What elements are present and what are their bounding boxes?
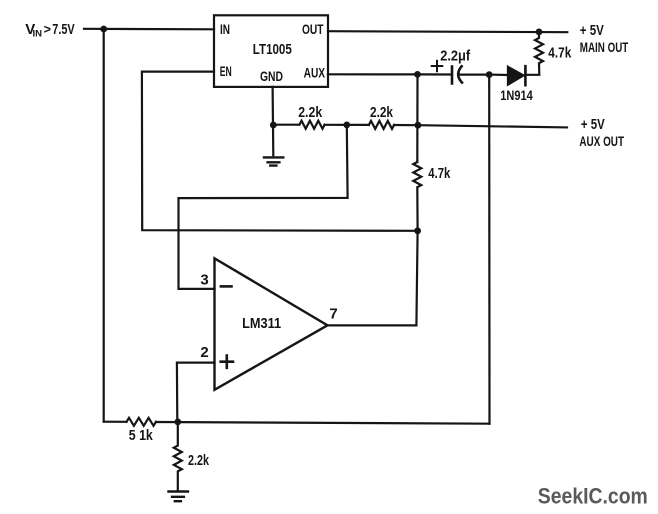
junction GND node xyxy=(270,122,277,129)
svg-text:MAIN OUT: MAIN OUT xyxy=(580,39,629,55)
junction OUT node xyxy=(536,29,543,36)
svg-text:GND: GND xyxy=(260,69,283,84)
junction feedback node xyxy=(414,227,421,234)
wire divider to pin3 xyxy=(179,125,348,289)
wire pin2 xyxy=(177,363,215,422)
resistor R1 4.7k xyxy=(526,32,543,75)
wire AUX node to R4 xyxy=(416,74,418,162)
svg-text:+ 5V: + 5V xyxy=(580,22,604,39)
svg-text:4.7k: 4.7k xyxy=(548,45,572,62)
wire left rail xyxy=(103,29,105,422)
svg-text:2.2k: 2.2k xyxy=(298,105,323,121)
svg-text:SeekIC.com: SeekIC.com xyxy=(538,484,648,509)
wire VIN input xyxy=(84,28,214,31)
svg-text:>: > xyxy=(44,23,51,37)
svg-text:2.2k: 2.2k xyxy=(188,453,210,469)
svg-text:1N914: 1N914 xyxy=(500,87,533,103)
wire GND pin xyxy=(272,87,275,155)
svg-text:5 1k: 5 1k xyxy=(129,428,154,444)
wire bottom rail xyxy=(104,422,490,424)
junction bottom node xyxy=(174,419,181,426)
svg-text:+ 5V: + 5V xyxy=(581,116,605,133)
svg-text:IN: IN xyxy=(33,28,43,39)
wire output pin7 xyxy=(328,231,418,325)
ground GND1 xyxy=(264,157,283,165)
wire AUX OUT line xyxy=(273,125,567,128)
wire right rail vertical xyxy=(488,75,490,424)
svg-text:AUX OUT: AUX OUT xyxy=(579,133,624,149)
svg-text:LM311: LM311 xyxy=(242,315,281,332)
resistor R2 2.2k xyxy=(299,121,324,129)
svg-text:AUX: AUX xyxy=(304,66,326,81)
wire EN path xyxy=(142,72,418,231)
svg-text:7.5V: 7.5V xyxy=(52,21,74,38)
capacitor C1 2.2uF xyxy=(418,73,452,75)
svg-text:2.2k: 2.2k xyxy=(370,105,394,121)
diode D1 1N914 xyxy=(489,73,507,76)
svg-text:2: 2 xyxy=(200,344,208,361)
svg-text:LT1005: LT1005 xyxy=(253,42,292,58)
svg-text:IN: IN xyxy=(220,22,230,37)
resistor R5 5.1k xyxy=(127,418,156,426)
resistor R6 2.2k xyxy=(174,422,182,490)
svg-text:EN: EN xyxy=(220,64,232,79)
U1 inverting input minus xyxy=(221,285,232,288)
svg-text:3: 3 xyxy=(200,272,208,289)
U1 non-inverting plus xyxy=(221,356,233,368)
wire OUT to +5V MAIN xyxy=(328,31,567,32)
svg-text:7: 7 xyxy=(329,306,337,323)
resistor R3 2.2k xyxy=(369,121,394,129)
C1 plus sign xyxy=(432,61,443,71)
junction AUX node xyxy=(414,71,421,78)
regulator U2 LT1005 box xyxy=(214,15,328,87)
svg-text:2.2μf: 2.2μf xyxy=(440,49,470,65)
junction VIN node xyxy=(100,26,107,33)
resistor R4 4.7k xyxy=(413,162,421,231)
op-amp U1 LM311 triangle xyxy=(215,258,328,390)
wire AUX pin xyxy=(328,73,418,75)
junction AUX line node xyxy=(415,122,422,129)
junction cap-diode node xyxy=(486,71,493,78)
ground GND2 xyxy=(169,492,189,502)
svg-text:OUT: OUT xyxy=(302,22,324,37)
svg-text:4.7k: 4.7k xyxy=(428,166,451,182)
junction divider node xyxy=(343,122,350,129)
